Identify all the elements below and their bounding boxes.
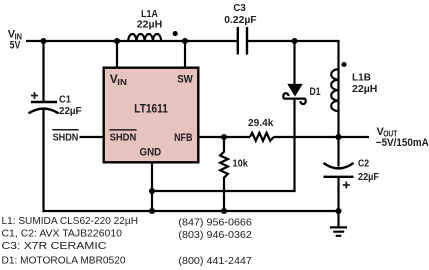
svg-text:22µH: 22µH <box>137 19 162 31</box>
node VIN terminal label <box>8 29 22 52</box>
junction VOUT C2 tap <box>335 134 341 140</box>
svg-text:10k: 10k <box>233 157 249 169</box>
wire C1 branch upper <box>42 41 44 102</box>
svg-text:D1: MOTOROLA MBR0520: D1: MOTOROLA MBR0520 <box>2 254 126 266</box>
wire VIN pin drop <box>116 41 118 67</box>
ground symbol <box>330 211 347 236</box>
inductor L1A coil <box>128 34 161 41</box>
svg-text:C1: C1 <box>59 93 71 105</box>
junction VIN pin tap <box>114 38 120 44</box>
junction C1 tap <box>40 38 46 44</box>
wire resistor to VOUT <box>274 136 369 138</box>
svg-text:29.4k: 29.4k <box>248 117 274 129</box>
junction GND pin bottom <box>149 208 155 214</box>
svg-text:L1B: L1B <box>352 71 371 83</box>
junction D1 tap <box>291 38 297 44</box>
svg-text:0.22µF: 0.22µF <box>224 14 257 26</box>
junction 10k bottom <box>221 208 227 214</box>
svg-text:IN: IN <box>117 77 127 87</box>
junction SW pin tap <box>182 38 188 44</box>
wire C1 branch lower <box>42 110 44 213</box>
svg-text:(847) 956-0666: (847) 956-0666 <box>178 216 252 228</box>
svg-text:C3: X7R CERAMIC: C3: X7R CERAMIC <box>2 240 107 252</box>
svg-text:NFB: NFB <box>174 132 192 144</box>
IC U1 LT1611 body <box>104 68 199 163</box>
node SHDN input label <box>52 130 78 144</box>
svg-text:GND: GND <box>140 147 162 159</box>
capacitor C1 <box>29 102 59 113</box>
pin label VIN <box>110 72 127 87</box>
wire top rail from C3 right plate to L1B corner and L1B drop <box>248 40 339 137</box>
svg-text:(803) 946-0362: (803) 946-0362 <box>178 229 252 241</box>
junction 10k tap <box>221 134 227 140</box>
svg-text:C2: C2 <box>358 158 369 170</box>
svg-text:22µF: 22µF <box>59 105 82 117</box>
diode D1 triangle <box>287 84 302 97</box>
diode D1 schottky cathode bar <box>283 93 305 104</box>
svg-text:L1: SUMIDA CLS62-220 22µH: L1: SUMIDA CLS62-220 22µH <box>2 215 139 227</box>
resistor 10k with leads <box>220 137 228 211</box>
svg-text:SHDN: SHDN <box>110 131 137 143</box>
svg-text:C3: C3 <box>233 2 246 14</box>
wire SHDN input <box>80 136 103 138</box>
svg-text:22µF: 22µF <box>358 171 379 183</box>
wire D1 branch upper <box>293 41 295 85</box>
svg-text:D1: D1 <box>310 86 321 98</box>
plus sign C1 <box>31 92 38 99</box>
wire SW pin drop <box>184 41 186 67</box>
resistor 29.4k zigzag <box>250 133 274 141</box>
wire top rail from VIN to C3 left plate <box>26 40 237 42</box>
phase dot L1B <box>341 62 346 67</box>
junction ground return tap <box>149 188 155 194</box>
svg-text:C1, C2: AVX TAJB226010: C1, C2: AVX TAJB226010 <box>2 227 123 239</box>
junction C2 ground <box>335 208 341 214</box>
pin label SHDN <box>109 130 136 144</box>
svg-text:SHDN: SHDN <box>53 131 79 143</box>
svg-text:−5V/150mA: −5V/150mA <box>376 137 429 149</box>
wire ground return from D1 <box>152 98 296 191</box>
wire GND pin drop <box>151 163 153 211</box>
wire bottom rail <box>42 210 338 212</box>
svg-text:LT1611: LT1611 <box>134 104 168 116</box>
svg-text:SW: SW <box>177 73 193 85</box>
phase dot L1A <box>173 31 178 36</box>
capacitor C3 plates <box>238 27 247 55</box>
svg-text:5V: 5V <box>10 39 21 51</box>
svg-text:22µH: 22µH <box>352 83 377 95</box>
capacitor C2 <box>324 137 354 211</box>
svg-text:(800) 441-2447: (800) 441-2447 <box>178 255 252 267</box>
wire NFB to resistor <box>199 136 250 138</box>
inductor L1B coil <box>331 69 338 111</box>
plus sign C2 <box>343 182 350 189</box>
label VOUT <box>377 126 398 139</box>
